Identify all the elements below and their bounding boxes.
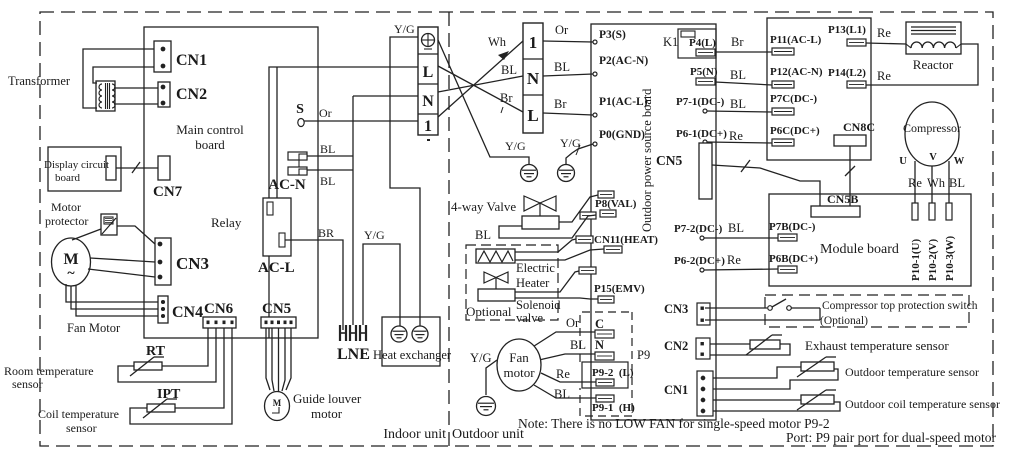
svg-text:P6C(DC+): P6C(DC+) (770, 125, 820, 137)
svg-text:Port: P9 pair port for dual-sp: Port: P9 pair port for dual-speed motor (786, 430, 996, 445)
svg-text:board: board (195, 137, 225, 152)
svg-text:AC-L: AC-L (258, 260, 295, 276)
wire outdoor N to P2 (BL) (543, 74, 593, 76)
wire fan motor to P9-2 (541, 373, 596, 382)
wire solenoid to P15 pin (515, 298, 598, 299)
svg-text:Relay: Relay (211, 215, 242, 230)
wire P5 to P12 (BL) (715, 82, 772, 85)
svg-text:P10-1(U): P10-1(U) (910, 239, 922, 281)
compressor M-COMP (905, 102, 959, 166)
wire indoor N to outdoor N (BL) (438, 76, 523, 92)
indoor/outdoor dashed divider wire (448, 12, 450, 446)
connector CN11(HEAT) (576, 236, 593, 243)
wire P6-1 to P6C (Re) (707, 142, 772, 143)
wire 4-way valve to P8 pin1 (559, 195, 598, 222)
wire transformer to CN2 pin1 (114, 87, 163, 89)
wire protector to CN3 pin1 (117, 226, 155, 244)
wire CN5 to CN5B with break (712, 165, 820, 206)
wire indoor earth to heat exchanger ground2 (390, 37, 420, 326)
svg-text:valve: valve (516, 311, 544, 325)
svg-text:motor: motor (503, 365, 535, 380)
svg-text:CN3: CN3 (664, 302, 688, 316)
svg-text:BL: BL (475, 228, 491, 242)
wire outdoor 1 to P3 (Or) (543, 41, 593, 42)
indoor terminal block XT1 (418, 27, 438, 135)
svg-text:P6B(DC+): P6B(DC+) (769, 253, 818, 265)
fan motor M2 (outdoor) (497, 339, 541, 391)
svg-text:P7-1(DC-): P7-1(DC-) (676, 96, 725, 108)
solenoid valve YV2 (484, 272, 508, 283)
svg-text:P5(N): P5(N) (690, 66, 718, 78)
svg-text:Re: Re (729, 129, 743, 143)
svg-text:sensor: sensor (66, 421, 97, 435)
wire display to CN7 with break (116, 167, 158, 169)
svg-text:P3(S): P3(S) (599, 29, 626, 41)
wire motor to CN4 pin1 (66, 284, 158, 302)
svg-text:Main control: Main control (176, 122, 244, 137)
wire outdoor temp sensor return to CN1 pin2 (713, 369, 838, 389)
module board U-MOD (769, 194, 971, 286)
svg-text:CN11(HEAT): CN11(HEAT) (594, 234, 658, 246)
electric heater EH1 (476, 249, 515, 263)
svg-text:CN1: CN1 (176, 52, 207, 69)
svg-text:Or: Or (319, 106, 332, 120)
svg-text:Electric: Electric (516, 261, 555, 275)
svg-text:CN5: CN5 (656, 153, 682, 168)
svg-text:Compressor: Compressor (903, 121, 961, 135)
wire motor to CN4 pin3 (76, 285, 158, 316)
svg-text:Room temperature: Room temperature (4, 364, 94, 378)
wire fan motor to protector (72, 229, 101, 240)
svg-text:Exhaust temperature sensor: Exhaust temperature sensor (805, 338, 949, 353)
svg-text:Re: Re (877, 26, 891, 40)
wire S to indoor terminal 1 (Or) (304, 120, 418, 122)
wire relay coil to board top (276, 67, 278, 198)
svg-text:P6-1(DC+): P6-1(DC+) (676, 128, 727, 140)
svg-text:Outdoor unit: Outdoor unit (452, 427, 524, 442)
svg-text:BL: BL (320, 142, 335, 156)
pin P10-1(U) (912, 203, 918, 220)
wire CN3 pin1 to switch (705, 307, 767, 309)
wire outdoor L to P1 (Br) (543, 113, 593, 115)
svg-text:Y/G: Y/G (394, 22, 415, 36)
svg-text:sensor: sensor (12, 377, 43, 391)
wire solenoid to P15 upper pin (515, 271, 579, 292)
svg-text:Outdoor temperature sensor: Outdoor temperature sensor (845, 365, 979, 379)
svg-text:M: M (273, 398, 282, 408)
svg-text:Wh: Wh (488, 35, 507, 49)
wire P7-2 to P7B (BL) (704, 237, 778, 239)
wire heater to CN11 pin1 (515, 239, 576, 252)
connector P15(EMV) (579, 267, 596, 274)
pin P10-2(V) (929, 203, 935, 220)
svg-text:W: W (954, 156, 965, 167)
svg-text:Re: Re (556, 367, 570, 381)
svg-text:P7B(DC-): P7B(DC-) (769, 221, 816, 233)
svg-text:V: V (929, 152, 937, 163)
wire P6-2 to P6B (Re) (704, 269, 778, 270)
svg-text:N: N (422, 93, 434, 110)
svg-text:Re: Re (877, 69, 891, 83)
svg-text:Note: There is no LOW FAN for: Note: There is no LOW FAN for single-spe… (518, 416, 830, 431)
svg-text:BL: BL (501, 63, 517, 77)
protection switch dashed box (765, 295, 969, 327)
wire coil sensor return to CN1 pin4 (713, 402, 840, 411)
ground symbol (outdoor fan) (477, 397, 496, 416)
svg-text:L: L (527, 106, 538, 125)
svg-text:P7-2(DC-): P7-2(DC-) (674, 223, 723, 235)
guide louver motor M3 (265, 392, 290, 421)
wire RT return to CN6 pin2 (118, 328, 216, 382)
terminal earth symbol (422, 34, 435, 47)
svg-text:P13(L1): P13(L1) (828, 24, 866, 36)
fan motor M1 (indoor) (52, 238, 91, 286)
connector AC-N (288, 152, 307, 160)
wire heater to CN11 pin2 (515, 249, 604, 260)
svg-text:Heater: Heater (516, 276, 550, 290)
svg-text:BR: BR (318, 226, 334, 240)
svg-text:S: S (296, 102, 304, 117)
svg-text:BL: BL (570, 338, 586, 352)
svg-text:Motor: Motor (51, 200, 81, 214)
svg-text:Reactor: Reactor (913, 57, 954, 72)
svg-text:Or: Or (566, 316, 580, 330)
wire CN3 pin2 return (705, 319, 820, 321)
svg-text:BL: BL (554, 60, 570, 74)
wire relay to LNE L terminal (BR) (285, 240, 343, 330)
svg-text:N: N (527, 69, 540, 88)
connector P9-1 (H) (596, 395, 614, 402)
svg-text:BL: BL (730, 68, 746, 82)
ground symbol (outdoor, left) (521, 165, 538, 182)
svg-text:CN7: CN7 (153, 184, 183, 200)
wire CN8C to CN5B with break (849, 146, 851, 206)
display circuit board U-DISP (48, 147, 121, 191)
wire CN6 pin3 to IPT (175, 328, 224, 408)
svg-text:P8(VAL): P8(VAL) (595, 198, 637, 210)
wire P7-1 to P7C (BL) (707, 111, 772, 112)
svg-text:Outdoor coil temperature senso: Outdoor coil temperature sensor (845, 397, 1000, 411)
wire motor to CN3 pin3 (88, 269, 155, 277)
wire compressor W (BL) (948, 161, 950, 203)
wire CN2 pin1 to exhaust sensor (710, 343, 750, 345)
svg-text:Display circuit: Display circuit (44, 159, 109, 171)
wire indoor N cell (353, 95, 418, 97)
wire 4-way valve to P8 pin2 (BL) (499, 215, 596, 238)
wire compressor V (Wh) (931, 166, 933, 203)
wire fan motor to P9-1 (534, 385, 596, 398)
svg-text:P7C(DC-): P7C(DC-) (770, 93, 817, 105)
wire CN1 pin1 to outdoor temp sensor (713, 367, 801, 378)
svg-text:CN2: CN2 (176, 86, 207, 103)
connector CN4 (158, 296, 168, 323)
wire P14 to reactor (Re) (866, 44, 978, 85)
svg-text:board: board (55, 172, 81, 184)
svg-text:Br: Br (731, 35, 744, 49)
reactor L1 (906, 22, 961, 54)
svg-text:LNE: LNE (337, 346, 370, 363)
svg-text:CN1: CN1 (664, 383, 688, 397)
svg-text:Re: Re (727, 253, 741, 267)
terminal N (LNE strip) (349, 325, 351, 341)
wire compressor U (Re) (914, 161, 916, 203)
svg-text:~: ~ (67, 266, 75, 281)
svg-text:CN2: CN2 (664, 339, 688, 353)
wire indoor 1 to outdoor 1 (Wh) (438, 41, 523, 117)
wire exhaust sensor return to CN2 pin2 (710, 344, 790, 355)
heat exchanger HX (382, 317, 440, 366)
P9 dashed group box (580, 312, 632, 362)
svg-text:P11(AC-L): P11(AC-L) (770, 34, 822, 46)
wire switch to right (791, 307, 820, 309)
svg-text:P15(EMV): P15(EMV) (594, 283, 645, 295)
svg-text:BL: BL (949, 176, 965, 190)
svg-text:Optional: Optional (466, 304, 512, 319)
Optional dashed box (indoor-side) (466, 245, 558, 320)
svg-text:protector: protector (45, 214, 88, 228)
connector CN1 (154, 41, 171, 72)
ground symbol (outdoor, right) (558, 165, 575, 182)
wire AC-N pin1 (BL) (307, 155, 353, 157)
wire AC-N vertical to N terminal (352, 96, 354, 325)
svg-text:L: L (423, 64, 434, 81)
terminal E (LNE strip) (359, 325, 361, 341)
wire fan motor to N (539, 354, 595, 360)
svg-text:Y/G: Y/G (560, 136, 581, 150)
svg-text:CN3: CN3 (176, 254, 209, 273)
svg-text:Guide louver: Guide louver (293, 391, 362, 406)
svg-text:1: 1 (424, 118, 432, 135)
compressor top protection switch S1 (768, 306, 773, 311)
svg-text:U: U (899, 156, 907, 167)
wire AC-N pin2 (BL) (307, 169, 353, 171)
connector CN3 (155, 238, 171, 285)
svg-text:CN6: CN6 (204, 301, 234, 317)
wire P13 to reactor (Re) (866, 43, 906, 44)
svg-text:BL: BL (728, 221, 744, 235)
wire IPT return to CN6 pin4 (130, 328, 232, 424)
svg-text:Fan: Fan (509, 350, 529, 365)
svg-text:P9-1 (H): P9-1 (H) (592, 402, 635, 414)
wire motor to CN4 pin2 (71, 286, 158, 309)
svg-text:Transformer: Transformer (8, 74, 71, 88)
terminal L (LNE strip) (339, 325, 341, 341)
svg-text:P14(L2): P14(L2) (828, 67, 866, 79)
connector CN2 (158, 82, 170, 107)
wire fan motor to C (531, 332, 595, 348)
transformer T1 (96, 81, 115, 111)
svg-text:P4(L): P4(L) (689, 37, 716, 49)
svg-text:Outdoor power source board: Outdoor power source board (640, 88, 654, 232)
wire transformer to CN1 pin1 (83, 49, 163, 108)
wire P4 to P11 (Br) (715, 51, 772, 53)
thermistor exhaust (750, 340, 780, 349)
wires CN5 to guide louver motor (266, 328, 270, 390)
svg-text:P10-2(V): P10-2(V) (927, 239, 939, 281)
outdoor terminal block XT2 (523, 23, 543, 133)
thermistor outdoor coil (801, 395, 834, 404)
svg-text:P6-2(DC+): P6-2(DC+) (674, 255, 725, 267)
svg-text:Br: Br (554, 97, 567, 111)
wire motor to CN3 pin2 (90, 258, 155, 262)
filter board U-FLT (767, 18, 871, 160)
svg-text:P1(AC-L): P1(AC-L) (599, 96, 648, 108)
svg-text:P2(AC-N): P2(AC-N) (599, 55, 648, 67)
svg-text:Indoor unit: Indoor unit (383, 427, 446, 442)
wire P0 to ground (Y/G) (566, 144, 593, 164)
wire CN6 pin1 to RT (162, 328, 208, 366)
wire CN1 pin3 to coil sensor (713, 399, 801, 401)
wire L cell (318, 66, 418, 68)
svg-text:Br: Br (500, 91, 513, 105)
svg-text:BL: BL (320, 174, 335, 188)
svg-text:Y/G: Y/G (505, 139, 526, 153)
wire indoor L to outdoor L (Br) (438, 66, 523, 112)
outdoor power source board U-PWR (591, 24, 716, 420)
svg-text:CN5: CN5 (262, 301, 291, 317)
svg-text:Coil temperature: Coil temperature (38, 407, 119, 421)
svg-text:BL: BL (730, 97, 746, 111)
svg-text:P12(AC-N): P12(AC-N) (770, 66, 823, 78)
pin P10-3(W) (946, 203, 952, 220)
connector P8(VAL) (598, 191, 614, 198)
wire Y/G earth bracket E to heat exchanger (363, 244, 400, 326)
svg-text:K1: K1 (663, 35, 678, 49)
svg-text:(Optional): (Optional) (820, 315, 868, 327)
svg-text:Fan Motor: Fan Motor (67, 321, 121, 335)
svg-text:motor: motor (311, 406, 343, 421)
thermistor outdoor temperature (801, 362, 834, 371)
wire transformer to CN1 pin2 (93, 67, 163, 83)
svg-text:Wh: Wh (927, 176, 946, 190)
connector CN7 (158, 156, 170, 180)
sub-board box AC section (269, 67, 318, 338)
wire indoor earth to outdoor ground (Y/G diagonal) (438, 40, 529, 164)
svg-text:P10-3(W): P10-3(W) (944, 235, 956, 281)
connector P9-2 (L) (582, 362, 628, 388)
svg-text:BL: BL (554, 387, 570, 401)
svg-text:N: N (595, 338, 604, 352)
svg-text:Or: Or (555, 23, 569, 37)
svg-text:P0(GND): P0(GND) (599, 129, 645, 141)
svg-text:Compressor top protection swit: Compressor top protection switch (822, 300, 978, 312)
svg-text:P9: P9 (637, 348, 650, 362)
svg-text:Module board: Module board (820, 242, 899, 257)
main control board U-IN (144, 27, 318, 338)
svg-text:CN8C: CN8C (843, 120, 875, 134)
svg-text:CN4: CN4 (172, 304, 203, 321)
svg-text:Solenoid: Solenoid (516, 298, 561, 312)
svg-text:IPT: IPT (157, 387, 181, 402)
svg-text:4-way Valve: 4-way Valve (451, 199, 516, 214)
svg-text:C: C (595, 317, 604, 331)
svg-text:Re: Re (908, 176, 922, 190)
wire transformer to CN2 pin2 (114, 103, 163, 105)
svg-text:Y/G: Y/G (364, 228, 385, 242)
svg-text:1: 1 (529, 33, 538, 52)
svg-text:Heat exchanger: Heat exchanger (373, 348, 452, 362)
svg-text:Y/G: Y/G (470, 351, 492, 365)
svg-text:AC-N: AC-N (268, 177, 306, 193)
svg-text:P9-2 (L): P9-2 (L) (592, 367, 634, 379)
svg-text:CN5B: CN5B (827, 192, 858, 206)
